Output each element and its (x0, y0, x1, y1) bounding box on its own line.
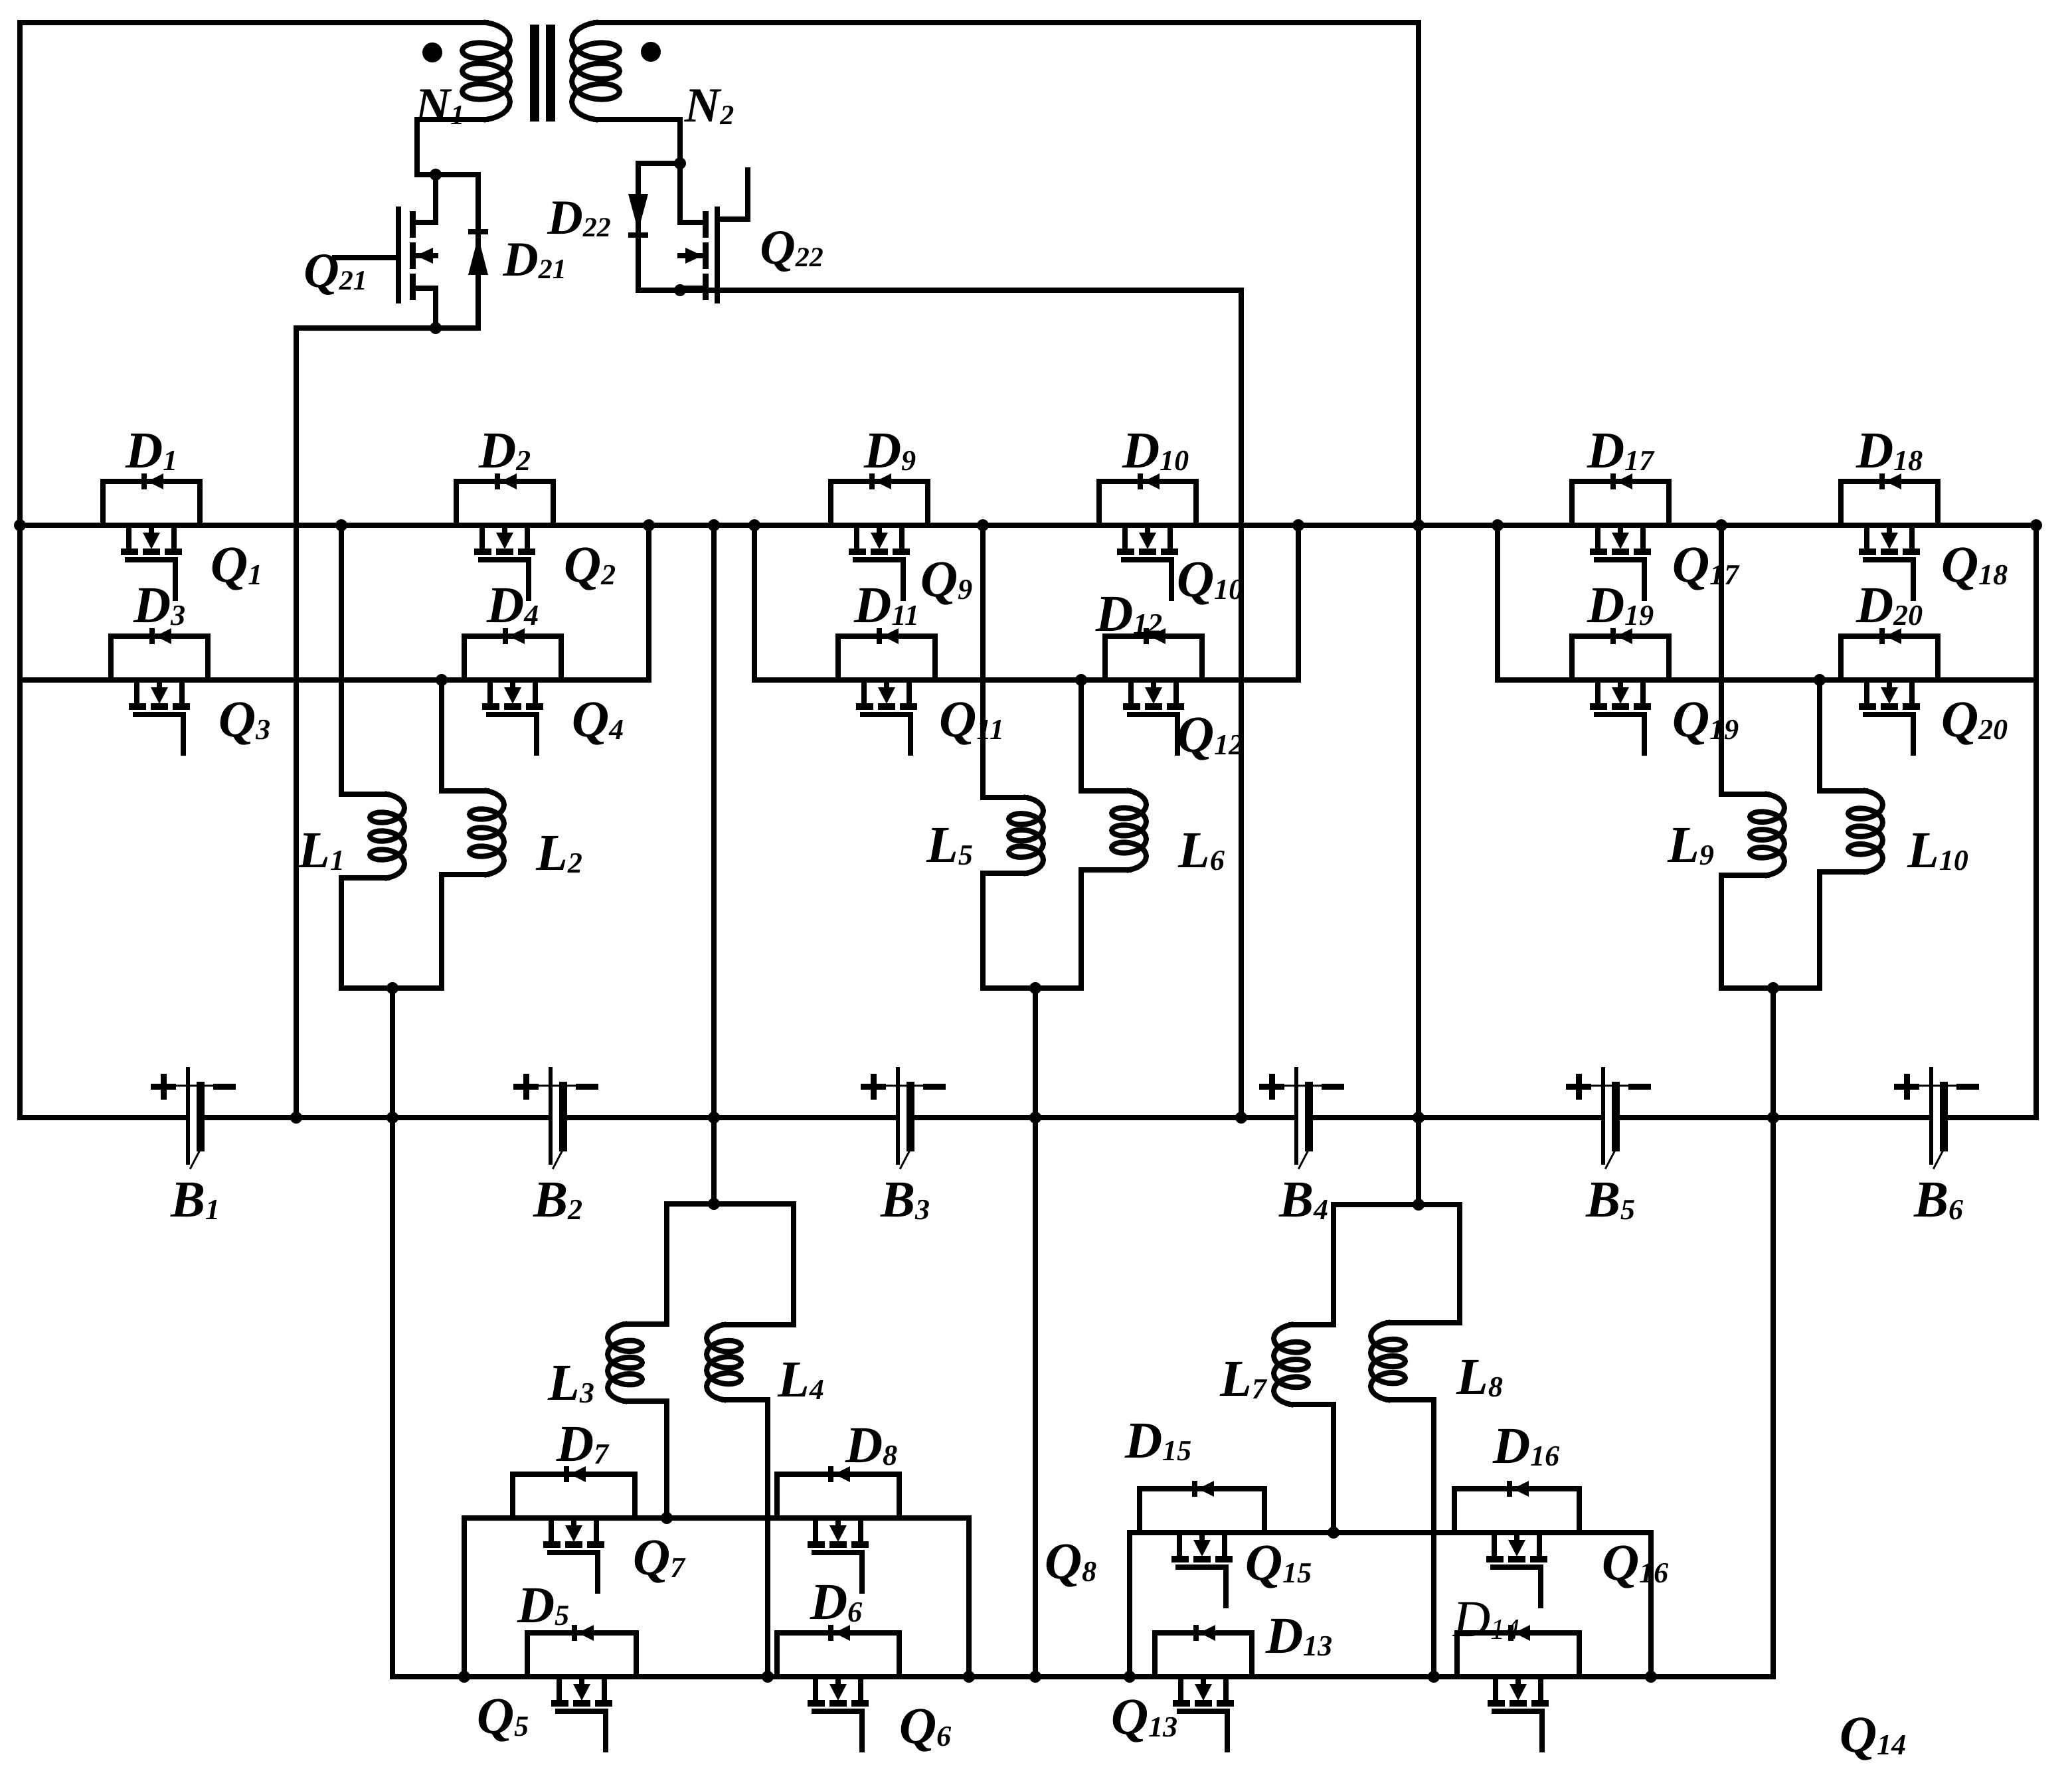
transistor Q10 (MOSFET) (1122, 525, 1128, 548)
node Q15 rail right leg at bottom rail (1645, 1671, 1657, 1683)
svg-text:D17: D17 (1587, 421, 1655, 479)
svg-text:L8: L8 (1456, 1347, 1503, 1405)
transistor Q22 (MOSFET) (703, 211, 709, 238)
diode D13 (1155, 1633, 1252, 1677)
svg-text:B3: B3 (880, 1170, 930, 1228)
svg-text:Q16: Q16 (1602, 1533, 1668, 1591)
node Q22 source (674, 284, 686, 296)
svg-text:D8: D8 (845, 1416, 897, 1474)
wire L8 bottom lead (1388, 1400, 1434, 1677)
transistor Q18 (MOSFET) (1864, 525, 1869, 548)
transistor Q3 (MOSFET) (134, 680, 139, 703)
wire L7 bottom lead (1291, 1404, 1334, 1533)
diode D3 (111, 636, 208, 680)
transistor Q7 (MOSFET) (549, 1518, 554, 1541)
node rail1 x1075 (708, 519, 720, 531)
svg-text:D6: D6 (810, 1572, 862, 1630)
node L9-L10 tap at battery rail (1767, 1112, 1779, 1124)
svg-text:D7: D7 (556, 1414, 610, 1472)
diode D9 (831, 481, 928, 525)
transistor Q9 (MOSFET) (854, 525, 859, 548)
inductor L8 (1371, 1323, 1405, 1400)
transformer primary winding N1 (462, 23, 510, 120)
diode D4 (464, 636, 561, 680)
transistor Q17 (MOSFET) (1595, 525, 1600, 548)
wire L3-L4 bracket (667, 1204, 794, 1325)
node battery rail x1075 (708, 1112, 720, 1124)
wire L8 top lead (1388, 1320, 1460, 1325)
wire L1-L2 bottom join (341, 985, 442, 991)
svg-text:Q14: Q14 (1840, 1705, 1906, 1763)
diode D1 (103, 481, 200, 525)
diode D6 (777, 1633, 899, 1677)
wire Q21 source to battery rail (296, 328, 478, 1118)
transistor Q1 (MOSFET) (126, 525, 131, 548)
inductor L6 (1112, 791, 1146, 870)
transistor Q12 (MOSFET) (1128, 680, 1134, 703)
node L1-L2 tap at battery rail (387, 1112, 398, 1124)
wire L9-L10 bottom join (1721, 985, 1820, 991)
diode D19 (1572, 636, 1669, 680)
svg-text:Q18: Q18 (1941, 535, 2008, 593)
inductor L4 (707, 1325, 741, 1400)
diode D16 (1454, 1489, 1579, 1533)
wire L6 bottom lead (1081, 870, 1129, 988)
svg-text:D11: D11 (853, 576, 919, 633)
transistor Q14 (MOSFET) (1493, 1677, 1498, 1700)
wire rail1-rail2 link at segment C start (1495, 525, 1500, 680)
svg-text:L5: L5 (926, 815, 973, 873)
node L4 at bottom rail (762, 1671, 774, 1683)
transistor Q5 (MOSFET) (557, 1677, 562, 1700)
wire N2 bottom to Q22 drain (596, 120, 680, 163)
svg-text:D22: D22 (547, 191, 610, 245)
inductor L5 (1009, 798, 1043, 873)
svg-text:D1: D1 (125, 421, 177, 479)
svg-text:Q21: Q21 (303, 244, 367, 298)
wire top cell rail (rail 1) (20, 523, 2036, 528)
svg-text:D2: D2 (478, 421, 531, 479)
diode D22 (body diode of Q22) (636, 163, 641, 290)
svg-text:Q7: Q7 (633, 1528, 686, 1586)
wire rail2 to L6 (1079, 680, 1084, 791)
node rail1 x1136 (748, 519, 760, 531)
node rail2 x2740 (1814, 674, 1826, 686)
svg-text:N2: N2 (684, 78, 734, 133)
wire L10 bottom lead (1820, 872, 1865, 988)
wire vertical from top border to L7-L8 bracket (B4-B5 tap) (1416, 23, 1421, 1205)
wire Q7-Q8 rail (464, 1518, 969, 1677)
wire rail1-rail2 link at segment B end (1296, 525, 1301, 680)
node battery rail x2137 (1413, 1112, 1424, 1124)
wire L10 top lead (1820, 788, 1865, 794)
wire Q22 drain lead (677, 163, 683, 222)
wire rail1 to L5 (980, 525, 986, 798)
wire L2 bottom lead (442, 875, 487, 988)
svg-text:D10: D10 (1122, 421, 1189, 479)
node L1-L2 join (387, 982, 398, 994)
diode D18 (1841, 481, 1938, 525)
inductor L9 (1750, 794, 1784, 875)
svg-text:Q4: Q4 (572, 690, 624, 748)
battery B6 (1929, 1067, 1933, 1165)
wire Q15-Q16 rail (1130, 1533, 1651, 1677)
svg-text:Q12: Q12 (1177, 705, 1243, 763)
node L5-L6 tap at bottom rail (1029, 1671, 1041, 1683)
node L5-L6 tap at battery rail (1029, 1112, 1041, 1124)
node rail2 x1628 (1075, 674, 1087, 686)
wire L6 top lead (1081, 788, 1129, 794)
transformer secondary winding N2 (572, 23, 620, 120)
diode D2 (456, 481, 553, 525)
wire battery rail (20, 1115, 2036, 1120)
wire bottom cell rail (392, 1674, 1773, 1679)
polarity dot N2 (641, 42, 661, 62)
wire rail2 to L2 (439, 680, 444, 791)
svg-text:L1: L1 (298, 821, 345, 879)
wire rail2 to L10 (1817, 680, 1822, 791)
svg-text:L9: L9 (1667, 815, 1714, 873)
wire Q21 drain lead (433, 175, 438, 222)
transistor Q16 (MOSFET) (1492, 1533, 1497, 1556)
wire bottom cell rail segment B (rail 2) (754, 677, 1298, 683)
wire L4 bottom lead (724, 1400, 768, 1677)
node rail1 x977 (643, 519, 655, 531)
svg-text:Q6: Q6 (899, 1697, 951, 1754)
svg-text:Q22: Q22 (760, 220, 823, 275)
wire L5-L6 bottom join (983, 985, 1081, 991)
svg-text:D16: D16 (1492, 1416, 1559, 1474)
node Q22 drain (674, 157, 686, 169)
transistor Q2 (MOSFET) (479, 525, 485, 548)
node Q7 rail right leg at bottom rail (963, 1671, 975, 1683)
wire L9 bottom lead (1721, 875, 1767, 988)
node L7 at Q15 rail (1328, 1527, 1339, 1539)
svg-text:Q3: Q3 (218, 690, 270, 748)
transistor Q13 (MOSFET) (1178, 1677, 1183, 1700)
svg-text:B6: B6 (1913, 1170, 1963, 1228)
svg-text:Q9: Q9 (920, 550, 972, 608)
node rail1 left border (14, 519, 26, 531)
svg-text:D12: D12 (1095, 584, 1162, 642)
wire L9 top lead (1721, 792, 1767, 797)
wire rail1-rail2 link at segment B start (752, 525, 757, 680)
wire L7-L8 bracket (1334, 1205, 1460, 1325)
svg-text:D18: D18 (1856, 421, 1923, 479)
transistor Q6 (MOSFET) (813, 1677, 818, 1700)
svg-text:L2: L2 (535, 823, 582, 881)
svg-text:L7: L7 (1219, 1349, 1268, 1407)
diode D12 (1105, 636, 1202, 680)
diode D10 (1099, 481, 1196, 525)
svg-text:Q19: Q19 (1672, 690, 1739, 748)
node rail1 x1480 (977, 519, 989, 531)
battery B1 (186, 1067, 190, 1165)
wire rail1 to battery rail tap (B2-B3) (711, 525, 717, 1204)
wire L9-L10 tap to bottom rail corner (1770, 988, 1776, 1677)
wire rail1-rail2 link at segment A end (646, 525, 651, 680)
svg-text:D15: D15 (1124, 1411, 1191, 1469)
svg-text:Q10: Q10 (1177, 550, 1243, 608)
wire L3 top lead (625, 1321, 667, 1327)
node Q21 source (430, 322, 442, 334)
wire left border (17, 23, 23, 1118)
node Q22 source line at battery rail (1235, 1112, 1247, 1124)
wire L2 top lead (442, 788, 487, 794)
wire L5 top lead (983, 795, 1026, 800)
wire L7 top lead (1291, 1322, 1334, 1327)
node rail2 x665 (436, 674, 448, 686)
transistor Q15 (MOSFET) (1177, 1533, 1182, 1556)
diode D11 (838, 636, 935, 680)
svg-text:B2: B2 (533, 1170, 582, 1228)
svg-text:Q2: Q2 (564, 535, 616, 593)
svg-text:B4: B4 (1278, 1170, 1328, 1228)
svg-text:Q15: Q15 (1245, 1533, 1312, 1591)
inductor L1 (370, 794, 404, 878)
transformer core (530, 25, 539, 122)
diode D14 (1457, 1633, 1579, 1677)
node rail1 x1955 (1292, 519, 1304, 531)
diode D8 (777, 1474, 899, 1518)
svg-text:D14: D14 (1452, 1590, 1519, 1647)
wire L4 top lead (724, 1322, 794, 1327)
diode D5 (527, 1633, 636, 1677)
node Q15 rail left leg at bottom rail (1124, 1671, 1136, 1683)
wire L1 top lead (341, 792, 387, 797)
svg-text:B1: B1 (170, 1170, 220, 1228)
diode D21 (body diode of Q21) (475, 175, 481, 328)
node L8 at bottom rail (1428, 1671, 1440, 1683)
transistor Q19 (MOSFET) (1595, 680, 1600, 703)
node Q21 source line at battery rail (290, 1112, 302, 1124)
svg-text:L4: L4 (777, 1350, 824, 1408)
battery B3 (896, 1067, 900, 1165)
inductor L10 (1848, 791, 1883, 872)
svg-text:Q17: Q17 (1672, 535, 1740, 593)
svg-text:D13: D13 (1265, 1606, 1332, 1664)
node Q21 drain (430, 169, 442, 181)
svg-text:D9: D9 (863, 421, 916, 479)
svg-text:Q13: Q13 (1111, 1687, 1177, 1745)
inductor L3 (608, 1324, 642, 1401)
wire bottom cell rail segment C (rail 2) (1498, 677, 2036, 683)
node rail1 x2592 (1715, 519, 1727, 531)
svg-text:D5: D5 (517, 1576, 569, 1634)
wire L5 bottom lead (983, 873, 1026, 988)
node rail1 x2137 (1413, 519, 1424, 531)
diode D17 (1572, 481, 1669, 525)
wire N1 bottom to Q21 drain (417, 120, 486, 175)
wire L1-L2 tap to bottom rail (390, 988, 395, 1677)
diode D20 (1841, 636, 1938, 680)
node rail1 x514 (335, 519, 347, 531)
node L3-L4 bracket tap (708, 1198, 720, 1210)
node L7-L8 bracket tap (1413, 1199, 1424, 1211)
svg-text:Q20: Q20 (1941, 690, 2008, 748)
polarity dot N1 (422, 42, 442, 62)
node L9-L10 join (1767, 982, 1779, 994)
wire Q22 drain to D22 (638, 161, 680, 166)
transistor Q4 (MOSFET) (487, 680, 493, 703)
inductor L7 (1274, 1325, 1308, 1404)
transistor Q11 (MOSFET) (861, 680, 867, 703)
node rail1 right corner (2030, 519, 2042, 531)
svg-text:B5: B5 (1585, 1170, 1635, 1228)
svg-text:L6: L6 (1177, 821, 1225, 879)
wire rail1 to L9 (1719, 525, 1724, 794)
transistor Q8 (MOSFET) (813, 1518, 818, 1541)
diode D15 (1140, 1489, 1264, 1533)
wire top border right segment (596, 20, 1419, 25)
wire L3 bottom lead (625, 1401, 667, 1518)
transistor Q20 (MOSFET) (1864, 680, 1869, 703)
node rail1 x2255 (1492, 519, 1504, 531)
wire top border left segment (20, 20, 486, 25)
svg-text:N1: N1 (414, 78, 464, 133)
svg-text:L10: L10 (1907, 821, 1968, 879)
wire L1 bottom lead (341, 878, 387, 988)
wire Q22 source line to battery rail (638, 290, 1241, 1118)
transistor Q21 (MOSFET) (410, 211, 416, 238)
inductor L2 (470, 791, 504, 875)
battery B5 (1601, 1067, 1605, 1165)
wire right border (2033, 525, 2039, 1118)
battery B2 (549, 1067, 553, 1165)
node L5-L6 join (1029, 982, 1041, 994)
wire bottom cell rail segment A (rail 2) (20, 677, 649, 683)
wire L5-L6 tap to bottom rail (1033, 988, 1038, 1677)
diode D7 (513, 1474, 635, 1518)
node L3 at Q7 rail (661, 1512, 673, 1524)
svg-text:L3: L3 (547, 1353, 594, 1411)
svg-text:Q11: Q11 (939, 690, 1004, 748)
svg-text:Q5: Q5 (477, 1687, 529, 1744)
node Q7 rail left leg at bottom rail (458, 1671, 470, 1683)
wire rail1 to L1 (339, 525, 344, 794)
svg-text:Q1: Q1 (211, 535, 262, 593)
svg-text:Q8: Q8 (1045, 1532, 1096, 1590)
battery B4 (1294, 1067, 1298, 1165)
